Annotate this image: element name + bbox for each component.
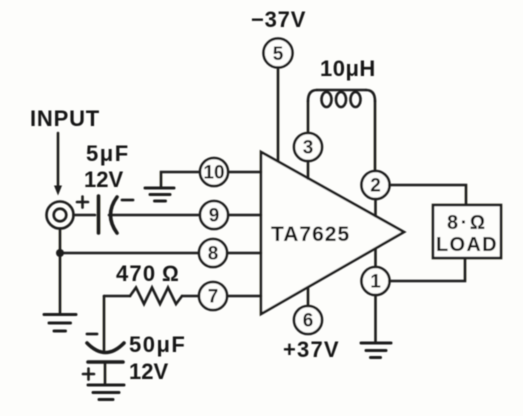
- wire U1 bottom edge to pin 1: [374, 249, 377, 267]
- plus sign (C2 polarity): [83, 369, 94, 380]
- wire L1 right to pin 2: [374, 101, 377, 171]
- wire pin 3 to U1 top edge: [307, 161, 310, 179]
- svg-text:10μH: 10μH: [320, 56, 376, 81]
- pin 8: [199, 239, 227, 267]
- svg-text:7: 7: [208, 287, 219, 308]
- wire ground stub to pin 10: [161, 172, 200, 187]
- wire jack to C1: [74, 214, 96, 217]
- input jack J1: [47, 202, 74, 229]
- plus sign (C1 polarity): [77, 197, 88, 208]
- wire pin 9 to U1: [228, 214, 261, 217]
- minus sign (C2 polarity): [87, 333, 97, 336]
- wire jack down to node A: [59, 229, 62, 254]
- wire R1 to pin 7: [182, 295, 199, 298]
- wire pin 6 to U1 bottom edge: [307, 288, 310, 306]
- pin 10: [200, 158, 228, 186]
- pin 1: [362, 267, 390, 295]
- svg-text:50μF: 50μF: [129, 332, 186, 357]
- wire pin 8 to U1: [227, 252, 261, 255]
- svg-text:6: 6: [303, 311, 314, 332]
- resistor R1 (470 ohm): [130, 288, 182, 305]
- pin 6: [294, 306, 322, 334]
- load box (8 ohm LOAD): [433, 205, 501, 258]
- svg-text:INPUT: INPUT: [30, 106, 100, 131]
- svg-text:LOAD: LOAD: [436, 234, 498, 256]
- wire L1 left to pin 3: [307, 101, 310, 133]
- svg-text:10: 10: [203, 163, 224, 184]
- wire node A to pin 8: [60, 252, 199, 255]
- capacitor C1 (5uF): [99, 196, 118, 233]
- wire pin 7 to U1: [227, 295, 261, 298]
- wire C2 to ground: [104, 362, 107, 384]
- pin 2: [362, 171, 390, 199]
- svg-text:12V: 12V: [129, 359, 168, 384]
- node A (junction dot): [56, 249, 64, 257]
- svg-text:3: 3: [303, 138, 314, 159]
- ground (C2): [88, 385, 124, 400]
- svg-text:470 Ω: 470 Ω: [116, 261, 180, 286]
- wire pin 5 to U1 top edge: [277, 68, 280, 162]
- wire pin 2 to U1 top edge: [374, 199, 377, 216]
- svg-text:5μF: 5μF: [86, 141, 130, 166]
- svg-text:−37V: −37V: [251, 7, 306, 32]
- wire C1 to pin 9: [109, 214, 200, 217]
- svg-text:TA7625: TA7625: [271, 223, 350, 246]
- svg-text:8: 8: [208, 244, 219, 265]
- wire pin 1 to ground: [374, 295, 377, 342]
- svg-text:12V: 12V: [84, 167, 123, 192]
- ground (pin 10): [145, 188, 174, 201]
- minus sign (C1 polarity): [122, 199, 133, 202]
- ground (pin 1): [361, 343, 391, 358]
- svg-text:5: 5: [273, 44, 284, 65]
- svg-text:8·Ω: 8·Ω: [447, 212, 488, 234]
- svg-text:9: 9: [209, 206, 220, 227]
- pin 3: [294, 133, 322, 161]
- wire pin 1 to load (bottom): [390, 258, 466, 281]
- wire pin 10 to U1: [228, 171, 261, 174]
- pin 5: [264, 39, 293, 68]
- svg-text:+37V: +37V: [283, 337, 340, 362]
- input arrow: [54, 133, 62, 196]
- wire pin 2 to load (top): [390, 185, 467, 205]
- capacitor C2 (50uF): [87, 343, 124, 362]
- op-amp U1 TA7625 (triangle): [261, 152, 404, 314]
- wire corner to resistor R1: [104, 295, 130, 298]
- wire down from R1 corner to C2: [103, 296, 106, 350]
- wire node A down to ground: [59, 253, 62, 313]
- pin 7: [199, 282, 227, 310]
- inductor L1 (10uH): [308, 90, 375, 107]
- ground (input): [44, 315, 76, 332]
- pin 9: [200, 201, 228, 229]
- svg-text:2: 2: [370, 176, 381, 197]
- svg-text:1: 1: [370, 272, 381, 293]
